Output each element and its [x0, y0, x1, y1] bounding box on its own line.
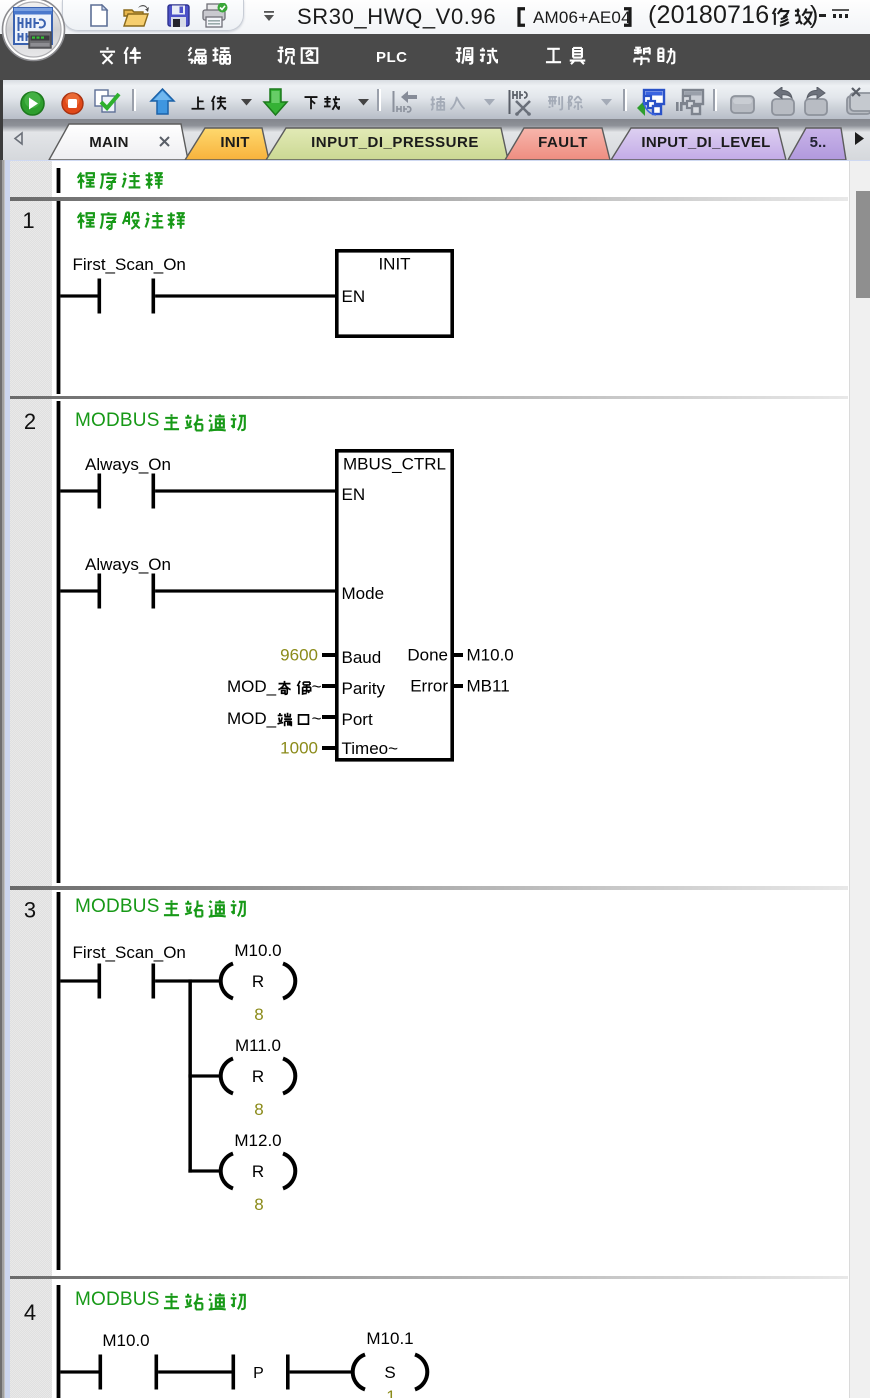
svg-text:INIT: INIT	[220, 134, 249, 151]
svg-text:5..: 5..	[810, 134, 827, 151]
svg-text:INPUT_DI_PRESSURE: INPUT_DI_PRESSURE	[311, 134, 479, 151]
svg-text:INPUT_DI_LEVEL: INPUT_DI_LEVEL	[641, 134, 770, 151]
svg-text:FAULT: FAULT	[538, 134, 588, 151]
svg-text:MAIN: MAIN	[89, 134, 129, 151]
